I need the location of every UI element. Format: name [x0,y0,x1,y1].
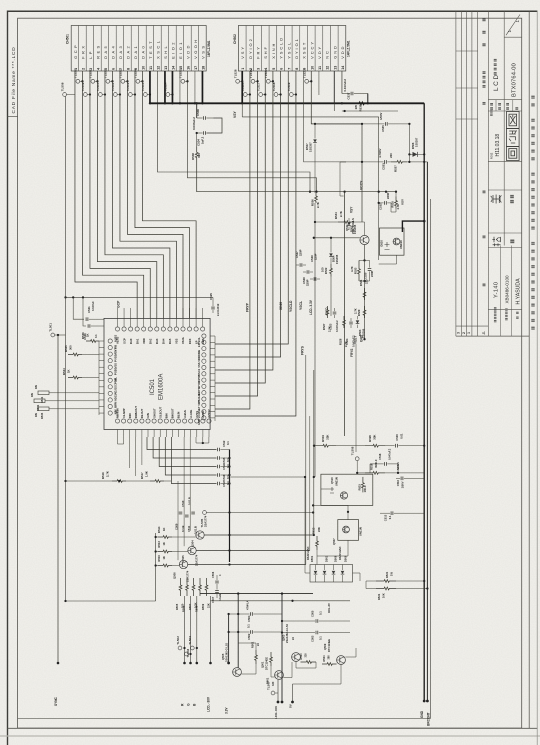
wire B transistor collector to B terminal [196,596,198,663]
svg-text:22K: 22K [207,603,211,608]
wire XSET pin 9 [304,71,346,162]
svg-text:1K: 1K [67,369,71,373]
svg-text:R504: R504 [323,655,326,662]
svg-text:D507: D507 [305,143,309,150]
transistor Q511 2SB709A-LS [360,235,369,244]
svg-text:DYIO1: DYIO1 [294,37,299,59]
wire C536 loop [206,118,222,133]
svg-text:VSY: VSY [233,110,237,118]
svg-text:1K: 1K [162,542,166,545]
svg-text:0.1: 0.1 [319,611,323,615]
wire VDD net horizontal y=111 [342,110,398,112]
resistor R534 2.7K [338,221,354,224]
terminal BRCONT [426,700,429,703]
svg-text:RN: RN [34,385,38,389]
svg-text:DA0: DA0 [140,44,145,59]
resistor R536 2.7K [315,193,318,203]
svg-text:C521: C521 [87,306,91,313]
svg-text:C506: C506 [211,571,215,578]
svg-text:PVSS: PVSS [114,354,118,361]
svg-text:18FLZ.5M1: 18FLZ.5M1 [207,40,211,57]
wire C537 to ground bus [367,94,369,104]
wire CH502 pin 3 (FRY) to IC501 [215,71,258,396]
svg-text:VEEY: VEEY [354,335,358,344]
svg-text:VCCY: VCCY [360,180,364,190]
svg-text:47/4V.A: 47/4V.A [246,600,250,610]
capacitor C514 0.1 [217,456,219,460]
wire SYNC vertical [57,335,59,663]
test point TL516 [251,79,255,83]
test point TL519 [289,93,293,97]
svg-text:D509: D509 [344,555,348,562]
capacitor C513 0.1 [380,512,390,514]
svg-text:33K: 33K [373,435,377,440]
svg-text:14FLZ.5M1: 14FLZ.5M1 [347,40,351,57]
svg-text:220P: 220P [306,279,310,286]
wire 3.3V rail [228,614,230,663]
svg-text:1: 1 [241,68,245,70]
svg-text:AVSS: AVSS [195,411,199,418]
terminal 5V dot [291,701,294,704]
svg-text:220: 220 [389,153,393,158]
svg-text:2.7K: 2.7K [106,471,110,477]
svg-text:VSS: VSS [114,363,118,369]
svg-text:R536: R536 [311,199,315,206]
stamp box kanji 路 [507,129,520,147]
wire TL501 lead [55,334,66,336]
svg-text:C520: C520 [395,434,399,441]
terminal GND [423,700,426,703]
svg-text:12: 12 [326,66,330,70]
wire schematic boundary right [430,199,432,719]
svg-text:22K: 22K [317,527,321,532]
svg-text:4.7K: 4.7K [350,266,354,272]
svg-text:DA0: DA0 [129,338,133,344]
svg-text:GLEOUT: GLEOUT [158,406,162,418]
wire DYIO1 pin 8 [215,71,296,416]
transistor Q504 2SA1774 [196,531,204,539]
svg-text:330: 330 [271,681,275,686]
svg-text:0.1uB: 0.1uB [218,594,222,601]
svg-text:R519: R519 [321,435,325,442]
svg-text:0.047uF: 0.047uF [91,301,95,311]
svg-text:VSY: VSY [401,199,405,205]
capacitor C536 0.047uF [197,117,203,119]
capacitor C507 [215,590,219,592]
sheet number cell 1/1 [506,15,520,36]
svg-text:XINH: XINH [197,350,201,356]
svg-text:Q507: Q507 [332,538,336,545]
svg-text:TL504: TL504 [188,636,192,645]
svg-text:R529: R529 [357,309,361,316]
svg-text:DA2: DA2 [148,338,152,344]
capacitor C506 [215,580,219,582]
resistor R537 220 [391,161,407,164]
svg-text:1uF.2: 1uF.2 [201,136,205,144]
svg-text:RES: RES [95,43,100,58]
svg-text:R515: R515 [357,484,361,491]
svg-text:1K: 1K [162,556,166,559]
svg-text:0.1: 0.1 [247,624,251,628]
svg-text:0.01.B: 0.01.B [194,526,198,534]
svg-text:EM1600A: EM1600A [159,374,165,400]
svg-text:4.7K: 4.7K [396,204,400,210]
test point TL504 [190,646,194,650]
svg-text:1/50V: 1/50V [401,481,405,488]
svg-text:Q510: Q510 [330,477,334,484]
wire TEST pin 11 to ground bus [149,71,151,103]
resistor R505 [179,578,182,596]
capacitor C512 0.1 [217,448,219,452]
svg-text:C518: C518 [378,453,382,460]
terminal rail end [281,701,284,704]
transistor Q503 2SA1362-G [292,653,301,662]
svg-text:3: 3 [457,332,461,334]
wire R transistor collector to R terminal [184,596,186,663]
wire G transistor collector to G terminal [190,596,192,663]
resistor R529 2.7K on column [363,306,366,318]
wire CH501 pin 7 (DA3) to IC501 [120,71,177,318]
wire TL505 lead to right [206,512,313,514]
test point TL512 [128,93,132,97]
svg-text:R514: R514 [157,526,161,533]
svg-text:TL502: TL502 [176,636,180,645]
svg-text:XSCL: XSCL [155,39,160,59]
resistor R526 1K [86,340,99,343]
wire EIO1 pin 15 [179,71,181,103]
svg-text:C537: C537 [347,92,351,99]
title block header cells small verticals [495,100,497,111]
terminal 3.3V [227,662,230,665]
svg-text:2: 2 [462,332,466,334]
wire IC501 bottom left pins to ground [118,437,124,444]
wire GCP top feed [66,296,214,298]
wire CH501 pin 6 (DA4) to IC501 [112,71,169,318]
test point TL511 [113,93,117,97]
test point TL521 [91,79,95,83]
svg-text:RLOUT: RLOUT [140,408,144,418]
wire cap C521 branch [73,297,84,319]
title block year month day kanji [482,18,485,21]
svg-text:IO/L.3V: IO/L.3V [327,603,331,613]
wire IC bottom staircase 2 [153,437,216,458]
svg-text:XINH: XINH [279,301,283,310]
title block small header kanji row [490,107,493,110]
svg-text:13: 13 [164,66,168,70]
wire Q511 emitter column [364,245,366,340]
wire ground rail right [423,103,425,701]
wire caps ground rail thick [229,450,231,563]
svg-text:2SA1774: 2SA1774 [186,570,190,582]
svg-text:VDD: VDD [197,356,201,362]
svg-text:0.047uF.2: 0.047uF.2 [343,79,347,92]
resistor R527 2.7K [326,306,329,318]
svg-text:Q505: Q505 [221,653,225,660]
svg-text:GND: GND [332,44,337,59]
svg-text:1: 1 [467,332,471,334]
wire XSCL pin 12 below bus [157,71,310,192]
svg-text:BHOUT: BHOUT [171,408,175,418]
svg-text:TL515: TL515 [241,82,245,91]
svg-text:R517: R517 [140,472,144,479]
svg-text:DA3: DA3 [118,44,123,59]
svg-text:4: 4 [96,68,100,70]
svg-text:3: 3 [257,68,261,70]
svg-text:GIN: GIN [146,413,150,418]
svg-text:BLIN: BLIN [177,412,181,418]
svg-text:14: 14 [171,66,175,70]
svg-text:2.7K: 2.7K [316,202,320,208]
svg-text:R503: R503 [300,653,303,660]
wire VSY to cluster [378,117,380,192]
wire IC bottom staircase 4 [165,437,216,475]
svg-text:DA1: DA1 [133,44,138,59]
svg-text:RO12: RO12 [491,152,494,159]
svg-text:FRYS: FRYS [350,349,354,357]
resistor R516 2.7K [66,480,113,482]
svg-text:R537: R537 [394,165,398,172]
capacitor C518 0.047uF [370,463,384,465]
svg-text:EIO2: EIO2 [170,40,175,59]
test point TL526 [236,79,240,83]
svg-text:0.1: 0.1 [94,334,98,338]
resistor R508 [199,578,202,596]
scan shadow bottom edge [0,735,540,737]
svg-text:FRX: FRX [80,44,85,59]
svg-text:C530: C530 [364,272,368,279]
svg-text:Q504: Q504 [191,540,195,547]
svg-text:220P: 220P [386,192,390,199]
capacitor C505 0.1 [282,620,315,622]
wire VSS pin 18 to ground bus [201,71,203,103]
svg-text:C507: C507 [211,596,215,603]
svg-text:ADJ1: ADJ1 [114,387,118,394]
svg-text:R520: R520 [368,435,372,442]
svg-text:Q503: Q503 [282,634,286,641]
svg-text:14: 14 [341,66,345,70]
resistor R510 1K [158,564,172,567]
test point TL502 [178,646,182,650]
IC501 top pins [115,327,119,331]
diode D502 DA221-EN3 [324,565,326,571]
resistor R518 390K.F [365,472,385,475]
resistor network R533 RN [38,407,49,411]
svg-text:BRYS: BRYS [197,387,201,395]
svg-text:RWHOUT: RWHOUT [134,406,138,418]
wire R538 down and right [197,162,345,192]
svg-text:Q511: Q511 [345,224,349,231]
svg-text:ADJ2: ADJ2 [114,394,118,401]
wire right cluster verticals [314,150,316,193]
svg-text:BTX0764-00: BTX0764-00 [512,63,518,97]
svg-text:5: 5 [272,68,276,70]
transistor Q501 2SA1362-G [233,668,242,677]
capacitor C533 4.7/16V [340,161,384,163]
wire CH502 pin 7 (YSCL) to IC501 [215,71,288,344]
svg-text:0.01.B: 0.01.B [187,497,191,505]
svg-text:FRY: FRY [256,45,261,59]
svg-text:XSCL: XSCL [181,336,185,344]
wire C532 R535 verticals [378,192,380,260]
svg-text:10: 10 [310,66,314,70]
wire C534 to R538 [196,133,198,147]
test point TL513 [143,93,147,97]
wire VDD pin 16 below bus [187,71,316,192]
wire collector rows to right [204,534,313,536]
svg-text:GND: GND [420,710,424,718]
test point TL523 [121,79,125,83]
svg-text:2.7K: 2.7K [339,211,343,217]
svg-text:0.047uF.2: 0.047uF.2 [389,448,392,460]
diode D505 1SS355 [348,218,350,221]
resistor R532 100 [330,264,333,277]
svg-text:R533: R533 [354,267,358,274]
transistor Q509 DTC114EE [337,656,346,665]
svg-text:TL506: TL506 [351,446,355,455]
svg-text:OSC1: OSC1 [197,368,201,376]
resistor R538 390 [195,147,198,163]
svg-text:0.1: 0.1 [226,441,230,445]
svg-text:TL521: TL521 [89,69,93,78]
svg-text:VSS: VSS [175,338,179,344]
title block horizontal dividers [504,36,522,38]
wire net vertical x=314 [313,370,315,535]
svg-text:GND: GND [360,334,364,342]
wire bus to C536 [196,103,198,118]
resistor R533 4.7K [358,260,361,281]
svg-text:300: 300 [69,345,73,350]
wire CH501 pin 8 (DA2) to IC501 [127,71,183,318]
svg-text:R502: R502 [251,641,255,648]
wire VOOH pin 17 [194,71,196,103]
svg-text:DYIO2: DYIO2 [248,37,253,59]
svg-text:VCCY: VCCY [309,40,314,59]
svg-text:D506: D506 [411,142,415,149]
svg-text:C503: C503 [311,635,315,642]
approval row kanji 承 [491,195,502,204]
wire CH501 pin 4 (RES) to IC501 [97,71,156,318]
capacitor C535 1/50V [315,123,384,125]
svg-text:XSET: XSET [302,41,307,59]
svg-text:11: 11 [149,66,153,70]
svg-text:TL503: TL503 [186,648,190,657]
op-amp U1 IC501 EM1600A body [104,318,210,429]
wire opto link horizontal [313,504,348,506]
svg-text:GCP: GCP [117,300,121,308]
resistor R522 10K [376,587,396,590]
wire FRYS net label line [305,192,307,355]
svg-text:16: 16 [186,66,190,70]
svg-text:SHL: SHL [163,44,168,59]
svg-text:C511: C511 [187,525,191,532]
company name text [531,327,534,330]
svg-text:R534: R534 [334,212,338,219]
sheet outer border bottom [8,727,538,729]
svg-text:22K: 22K [326,435,330,440]
svg-text:RIN: RIN [128,413,132,418]
svg-text:AVDD: AVDD [201,411,205,418]
connector CH502 [238,26,345,72]
wire EIO2 pin 14 to ground bus [171,71,173,103]
resistor R525 300 [68,353,82,356]
test point TL528 [76,79,80,83]
svg-text:C519: C519 [222,474,226,481]
svg-text:Q501: Q501 [261,661,265,668]
test point TL514 [166,93,170,97]
wire TL506 down [356,461,358,473]
svg-text:CAD File Name ***.LCD: CAD File Name ***.LCD [11,47,17,114]
svg-text:DYID: DYID [197,381,201,387]
svg-text:C533: C533 [382,163,386,170]
svg-text:4.7/16V: 4.7/16V [378,148,382,157]
svg-text:220P: 220P [370,271,374,277]
svg-text:6: 6 [280,68,284,70]
svg-text:GCPSEL: GCPSEL [114,377,118,388]
title block column B/C divider [503,11,505,245]
capacitor C517 0.1 [217,473,219,477]
svg-text:DA4: DA4 [110,44,115,59]
sheet outer border left [7,11,9,745]
svg-text:10: 10 [141,66,145,70]
svg-text:DA1: DA1 [135,338,139,344]
test point TL515 [243,93,247,97]
svg-text:17: 17 [194,66,198,70]
wire bottom cluster top feed [200,593,313,595]
connector CH501 [71,26,206,72]
test point TL507 [271,691,275,695]
title block management code header [494,72,497,75]
svg-text:1SS357: 1SS357 [415,137,419,147]
transistor Q505 2SA1774 [188,546,196,554]
svg-text:RES: RES [201,338,205,344]
svg-text:TL511: TL511 [111,82,115,91]
resistor R521 1W [376,580,396,583]
svg-text:TL523: TL523 [119,69,123,78]
svg-text:DTC114EE: DTC114EE [265,657,269,670]
svg-text:330: 330 [305,653,308,658]
svg-text:CLAMP: CLAMP [122,408,126,418]
resistor R539 1W in ground bus [352,102,370,105]
wire cap C526 branch [83,297,86,326]
svg-text:C512: C512 [222,440,226,447]
svg-text:D502: D502 [325,555,329,562]
resistor R512 22K [316,536,319,550]
test point TL522 [106,79,110,83]
svg-text:VDY: VDY [317,45,322,59]
wire left pins stub rail [98,341,100,415]
svg-text:VSS: VSS [200,44,205,59]
wire VSY pin 1 to bus [241,71,243,103]
svg-text:C515: C515 [222,457,226,464]
svg-text:TEST: TEST [148,39,153,59]
wire bottom cluster links [241,673,256,675]
svg-text:RN: RN [30,393,34,397]
wire R533 C530 loop [359,259,370,261]
svg-text:FRYS: FRYS [301,345,305,355]
svg-text:2SA1362-G L52: 2SA1362-G L52 [285,624,289,643]
svg-text:C523: C523 [329,323,333,330]
resistor network R532 RN [34,399,45,403]
diode D507 1SS357 [314,124,316,138]
test point TL517 [259,93,263,97]
capacitor C530 220P [369,260,371,267]
capacitor C525 220P [212,297,214,306]
svg-text:DA3: DA3 [155,338,159,344]
wire caps chain [216,575,218,580]
svg-text:YSCL: YSCL [197,337,201,345]
svg-text:TL507: TL507 [267,681,271,690]
svg-text:GCP: GCP [122,338,126,344]
